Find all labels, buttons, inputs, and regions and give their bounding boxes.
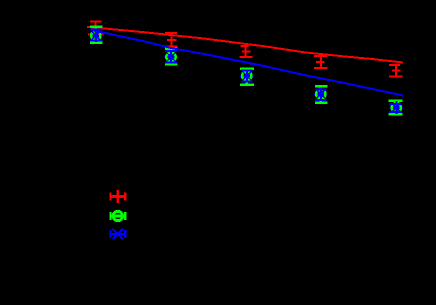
green errorbar+circle point 1 [90, 27, 103, 43]
red errorbar point 1 [88, 22, 104, 35]
legend red entry: line sample with errorbar caps and plus marker [110, 190, 127, 203]
blue errorbar+asterisk point 1 [89, 29, 102, 42]
blue fit line [91, 30, 403, 96]
red errorbar point 4 [314, 56, 328, 68]
legend green entry: line sample with errorbar caps and circle marker [110, 211, 127, 220]
green errorbar+circle point 4 [315, 86, 328, 102]
green errorbar+circle point 5 [388, 101, 402, 114]
green errorbar+circle point 2 [165, 49, 178, 65]
green errorbar+circle point 3 [240, 69, 254, 85]
blue errorbar+asterisk point 5 [389, 101, 403, 114]
blue errorbar+asterisk point 3 [240, 69, 253, 82]
red errorbar point 3 [240, 46, 253, 57]
red errorbar point 5 [389, 65, 403, 77]
blue errorbar+asterisk point 4 [314, 88, 327, 101]
red fit line [87, 27, 403, 63]
red errorbar point 2 [165, 33, 178, 47]
legend blue entry: line sample with errorbar caps and asterisk marker [110, 229, 127, 239]
blue errorbar+asterisk point 2 [164, 51, 177, 64]
